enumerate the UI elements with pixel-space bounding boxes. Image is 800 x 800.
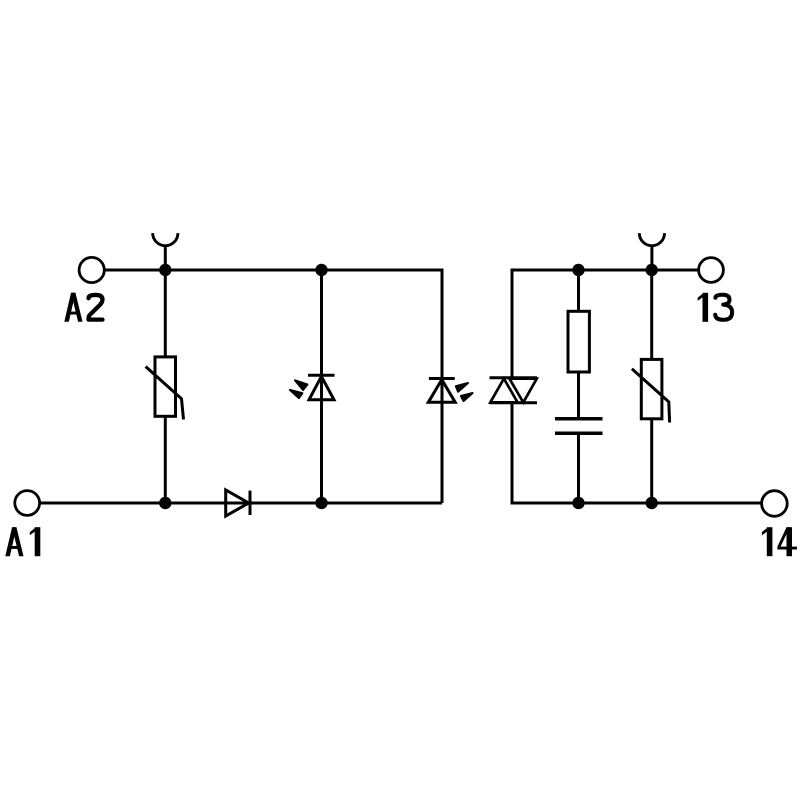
LED V1 cathode bar	[308, 374, 335, 377]
wire terminal clip stem 13	[650, 246, 653, 270]
wire bottom rail left block A1 to corner	[40, 502, 442, 505]
wire resistor branch upper	[577, 270, 580, 311]
wire resistor to capacitor	[577, 372, 580, 417]
opto LED V3 light arrow upper	[456, 383, 468, 392]
wire triac bottom to bottom rail right block	[512, 403, 761, 503]
terminal circle 13	[699, 258, 724, 283]
junction dot top resistor	[572, 264, 584, 276]
junction dot bottom LED V1	[315, 497, 327, 509]
terminal circle A2	[79, 257, 104, 282]
resistor R1 body	[568, 311, 589, 372]
capacitor C1 bottom plate	[555, 431, 603, 435]
junction dot top varistor RU2	[646, 264, 658, 276]
junction dot top varistor RU1	[159, 264, 171, 276]
wire terminal clip stem A2	[164, 246, 167, 270]
junction dot bottom varistor RU1	[159, 497, 171, 509]
LED V1 triangle	[309, 376, 334, 399]
wire capacitor lower	[577, 435, 580, 503]
wire LED V1 branch	[320, 270, 323, 503]
label A2	[64, 293, 82, 322]
label A1	[5, 527, 23, 556]
junction dot bottom varistor RU2	[646, 497, 658, 509]
wire top rail right block to triac top	[512, 270, 699, 378]
label 13	[698, 293, 709, 322]
junction dot bottom capacitor	[572, 497, 584, 509]
diode V2 triangle	[226, 490, 249, 516]
triac V4 down triangle	[509, 379, 536, 403]
opto LED V3 light arrow lower	[461, 393, 473, 401]
wire varistor RU2 branch lower	[650, 419, 653, 503]
label 14	[762, 527, 773, 556]
wire varistor RU2 branch upper	[650, 270, 653, 359]
junction dot top LED V1	[315, 264, 327, 276]
opto LED V3 triangle	[428, 380, 455, 403]
varistor RU1 body	[155, 357, 176, 416]
wire top rail left block A2 to corner and down through LED branch	[104, 270, 442, 503]
wire varistor RU1 branch upper	[164, 270, 167, 357]
varistor RU2 diagonal	[632, 369, 670, 423]
terminal circle A1	[15, 491, 40, 516]
diode V2 cathode bar	[249, 491, 252, 515]
triac V4 bottom bar	[490, 401, 538, 404]
terminal clip arc A2	[153, 233, 178, 246]
opto LED V3 cathode bar	[429, 377, 455, 380]
varistor RU1 diagonal	[146, 367, 184, 420]
LED V1 light arrow upper	[295, 380, 307, 390]
triac V4 top bar	[490, 376, 538, 379]
terminal circle 14	[762, 491, 788, 517]
LED V1 light arrow lower	[290, 390, 303, 398]
capacitor C1 top plate	[555, 417, 603, 421]
triac V4 up triangle	[490, 379, 517, 403]
varistor RU2 body	[641, 359, 662, 418]
terminal clip arc 13	[639, 233, 664, 246]
wire varistor RU1 branch lower	[164, 416, 167, 503]
